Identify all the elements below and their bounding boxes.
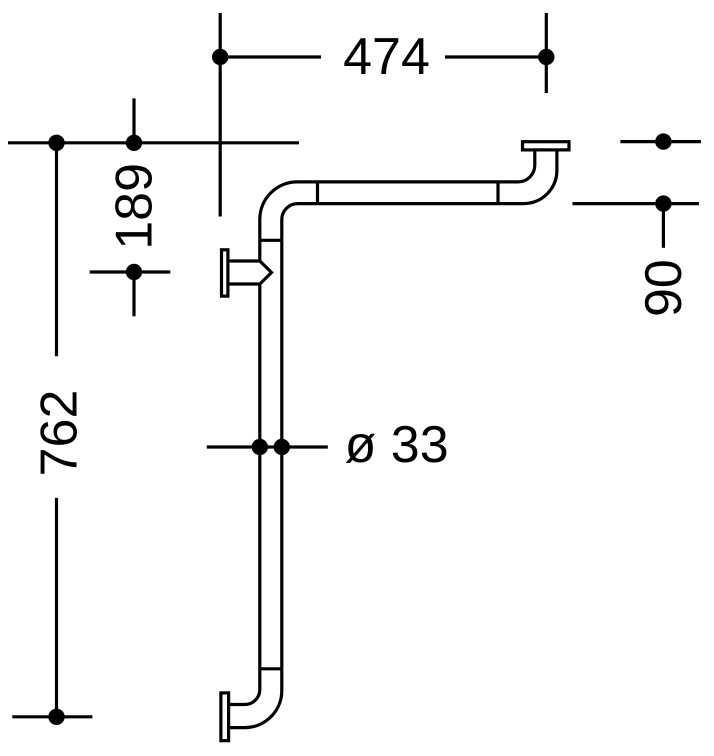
dim 189 lower cross vertical (132, 272, 135, 316)
dim 762 line lower segment (55, 498, 58, 717)
svg-text:90: 90 (635, 259, 693, 317)
dim dot 189 bottom (126, 264, 142, 280)
grab bar horizontal tube bottom edge + left elbow inner + vertical right edge + bottom elbow outer (229, 204, 524, 728)
svg-text:ø 33: ø 33 (345, 416, 449, 474)
dim 90 line lower (573, 202, 699, 205)
svg-text:474: 474 (343, 28, 430, 86)
grab bar horizontal tube top edge + left elbow outer + vertical left edge upper (260, 182, 518, 261)
dim dot 762 bottom (48, 709, 64, 725)
dim 762 line upper segment (55, 143, 58, 356)
dim 762 bottom datum line (12, 715, 92, 718)
dim dot 474 left (212, 49, 228, 65)
dim dot 762 top (48, 135, 64, 151)
dim dot 90 bottom (655, 195, 671, 211)
tube seam joint top left (316, 182, 319, 204)
intermediate support wall plate (222, 250, 228, 296)
tube seam joint vertical lower (260, 667, 282, 670)
dim dot 474 right (538, 49, 554, 65)
grab bar right elbow inner edge (518, 150, 535, 182)
wall flange top right (523, 142, 570, 150)
dim 474 line right segment (445, 55, 546, 58)
dim 189 extension line upper (132, 98, 135, 143)
dim dot 189 top (126, 135, 142, 151)
tube seam joint top right (496, 182, 499, 204)
dim dot diameter 33 left (252, 439, 268, 455)
wall flange bottom left (221, 693, 229, 741)
intermediate support arm with arrow point (229, 261, 272, 284)
grab bar right elbow outer edge (524, 150, 557, 204)
dim 189 lower cross horizontal (90, 270, 171, 273)
dim 474 extension line right (545, 13, 548, 93)
dim 474 extension line left (219, 13, 222, 217)
dim 474 line left segment (220, 55, 321, 58)
datum line top left (8, 141, 299, 144)
dim 90 drop line (662, 204, 665, 248)
svg-text:762: 762 (31, 390, 89, 477)
dim diameter 33 line (207, 445, 328, 448)
dim dot diameter 33 right (274, 439, 290, 455)
dim dot 90 top (655, 133, 671, 149)
tube seam joint vertical upper (260, 239, 282, 242)
grab bar vertical left edge lower + bottom elbow inner (229, 284, 260, 705)
dim 90 line upper (620, 140, 701, 143)
svg-text:189: 189 (106, 163, 164, 250)
